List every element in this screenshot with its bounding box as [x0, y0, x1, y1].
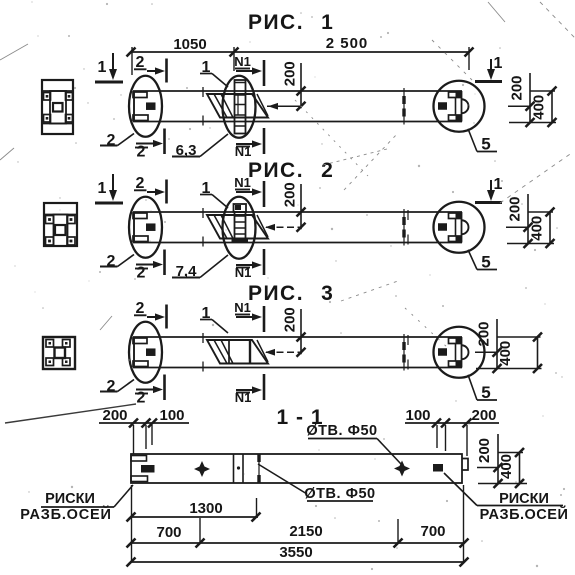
- section beam left end tabs: [131, 456, 147, 462]
- fig1 plate hatch: [214, 94, 227, 118]
- svg-text:РИС.: РИС.: [248, 159, 304, 182]
- fig3 joint mark x405: [403, 334, 405, 371]
- svg-text:N1: N1: [234, 54, 251, 69]
- section right dims 200/400: [497, 434, 499, 485]
- svg-text:1300: 1300: [189, 500, 222, 517]
- fig3 anchor plate: [207, 340, 268, 364]
- svg-text:5: 5: [481, 253, 490, 272]
- svg-text:5: 5: [481, 135, 490, 154]
- svg-text:1: 1: [98, 59, 107, 76]
- svg-text:3: 3: [321, 282, 333, 305]
- fig1 left embed bracket: [133, 92, 147, 98]
- svg-text:2 500: 2 500: [326, 35, 369, 52]
- fig2 right circle detail: [434, 202, 485, 253]
- fig1 extension lines: [131, 47, 133, 75]
- svg-text:РИСКИ: РИСКИ: [45, 491, 95, 507]
- fig2 embedded rod: [234, 204, 247, 212]
- svg-text:1: 1: [494, 55, 503, 72]
- svg-text:200: 200: [102, 407, 127, 424]
- svg-text:N1: N1: [235, 390, 252, 405]
- svg-text:1: 1: [494, 176, 503, 193]
- cross-section symbol fig2: [44, 203, 77, 246]
- fig1 right circle detail: [434, 81, 485, 132]
- svg-text:2: 2: [107, 253, 116, 270]
- extension lines bottom: [131, 485, 133, 562]
- svg-text:200: 200: [507, 196, 524, 221]
- fig1 section N1 bottom: [236, 143, 254, 145]
- section beam right tab: [462, 459, 469, 471]
- svg-text:ØТВ. Ф50: ØТВ. Ф50: [304, 486, 375, 502]
- fig2 left oval detail: [129, 197, 162, 258]
- svg-text:1: 1: [321, 11, 333, 34]
- svg-text:1: 1: [98, 180, 107, 197]
- fig1 top dim line 1050 / 2500: [131, 51, 469, 53]
- svg-text:РИСКИ: РИСКИ: [499, 491, 549, 507]
- fig2 mid ellipse: [223, 197, 256, 259]
- fig3 right circle detail: [434, 327, 485, 378]
- fig2 beam outline: [133, 211, 462, 213]
- fig1 joint mark x405: [403, 88, 405, 125]
- svg-text:5: 5: [481, 383, 490, 402]
- svg-text:N1: N1: [234, 175, 251, 190]
- fig2 label 5 leader: [468, 250, 477, 270]
- svg-text:400: 400: [529, 216, 546, 241]
- svg-text:N1: N1: [235, 265, 252, 280]
- svg-text:N1: N1: [235, 144, 252, 159]
- svg-text:N1: N1: [234, 300, 251, 315]
- cross-section symbol fig3: [43, 337, 75, 369]
- svg-text:2: 2: [137, 390, 146, 407]
- fig3 weld marks x203: [202, 333, 204, 343]
- fig2 weld marks x203: [202, 208, 204, 218]
- fig3 right embed bracket: [449, 338, 462, 344]
- svg-text:200: 200: [282, 307, 299, 332]
- fig2 joint mark x405: [403, 209, 405, 246]
- fig3 beam outline: [133, 336, 462, 338]
- fig1 mid ellipse: [223, 76, 256, 138]
- svg-text:200: 200: [509, 75, 526, 100]
- fig1 beam outline: [133, 90, 462, 92]
- fig2 right dims 200/400: [527, 194, 529, 244]
- fig3 left oval detail: [129, 322, 162, 383]
- scan artifact lines: [5, 404, 136, 423]
- fig3 section N1 bottom: [236, 389, 254, 391]
- svg-text:400: 400: [531, 95, 548, 120]
- fig2 right embed bracket: [449, 213, 462, 219]
- svg-text:2: 2: [107, 378, 116, 395]
- section beam outline: [131, 454, 462, 483]
- fig2 anchor plate: [207, 215, 268, 239]
- fig2 plate hatch: [214, 215, 227, 239]
- fig2 left embed bracket: [133, 213, 147, 219]
- fig1 left oval detail: [129, 76, 162, 137]
- svg-text:2: 2: [137, 265, 146, 282]
- fig2 section N1 bottom: [236, 264, 254, 266]
- fig1 embedded rod: [235, 80, 246, 134]
- svg-text:400: 400: [497, 341, 514, 366]
- svg-text:2150: 2150: [289, 523, 322, 540]
- fig1 right embed bracket: [449, 92, 462, 98]
- svg-text:200: 200: [282, 61, 299, 86]
- svg-text:100: 100: [405, 407, 430, 424]
- svg-text:РАЗБ.ОСЕЙ: РАЗБ.ОСЕЙ: [480, 505, 569, 523]
- fig3 left embed bracket: [133, 338, 147, 344]
- fig1 anchor plate: [207, 94, 268, 118]
- svg-text:700: 700: [420, 523, 445, 540]
- fig1 label 5 leader: [468, 129, 477, 152]
- section hole cross right: [394, 461, 410, 477]
- svg-text:ØТВ. Ф50: ØТВ. Ф50: [306, 423, 377, 439]
- section hole cross left: [194, 461, 210, 477]
- svg-text:200: 200: [476, 438, 493, 463]
- svg-text:200: 200: [471, 407, 496, 424]
- svg-text:200: 200: [476, 321, 493, 346]
- svg-text:100: 100: [159, 407, 184, 424]
- svg-text:2: 2: [321, 159, 333, 182]
- svg-text:700: 700: [156, 524, 181, 541]
- cross-section symbol fig1: [42, 80, 73, 134]
- svg-text:3550: 3550: [279, 544, 312, 561]
- svg-text:200: 200: [282, 182, 299, 207]
- fig3 label 5 leader: [468, 375, 477, 400]
- fig3 right dims 200/400: [496, 319, 498, 369]
- svg-text:РИС.: РИС.: [248, 282, 304, 305]
- section dashed riska line: [258, 454, 260, 483]
- fig1 right dims 200/400: [529, 73, 531, 123]
- svg-text:1050: 1050: [173, 36, 206, 53]
- fig3 plate hatch: [214, 340, 227, 364]
- svg-text:РИС.: РИС.: [248, 11, 304, 34]
- svg-text:2: 2: [137, 144, 146, 161]
- section joint double lines: [233, 454, 235, 483]
- fig1 weld marks x203: [202, 87, 204, 97]
